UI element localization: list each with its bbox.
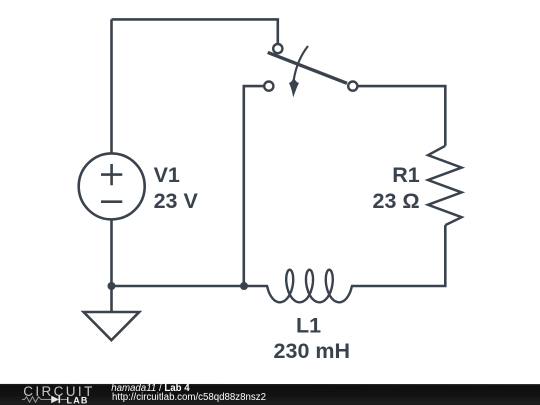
svg-text:R1: R1 — [392, 163, 420, 187]
footer url — [112, 393, 266, 403]
wire resistor bottom — [352, 225, 446, 286]
V1 plus sign — [101, 164, 122, 185]
ground stem — [110, 286, 113, 312]
svg-text:V1: V1 — [154, 163, 180, 187]
svg-text:L1: L1 — [296, 313, 321, 337]
switch SW1 right throw terminal — [348, 82, 357, 91]
V1 minus sign — [101, 200, 122, 203]
svg-text:23 V: 23 V — [154, 189, 199, 213]
logo diode — [51, 396, 59, 403]
switch SW1 arm — [268, 52, 347, 83]
CircuitLab logo CIRCUIT text — [23, 387, 95, 397]
ground triangle — [84, 312, 140, 340]
inductor L1 coil — [267, 270, 352, 303]
switch SW1 pivot terminal — [273, 44, 282, 53]
svg-text:23 Ω: 23 Ω — [373, 189, 420, 213]
voltage source V1 circle — [79, 153, 145, 219]
wire left throw stub — [244, 86, 264, 286]
switch SW1 left throw terminal — [264, 82, 273, 91]
switch arrow head — [289, 77, 299, 98]
wire top-left vertical — [110, 19, 113, 153]
resistor R1 — [428, 146, 462, 225]
wire right throw to resistor — [358, 86, 446, 146]
footer bar — [0, 384, 540, 405]
svg-text:230 mH: 230 mH — [274, 339, 351, 363]
switch arrow arc — [294, 46, 308, 80]
wire top horizontal — [112, 19, 278, 44]
logo resistor zigzag — [22, 397, 51, 402]
svg-text:LAB: LAB — [66, 395, 88, 405]
logo squiggle diode and LAB — [22, 395, 102, 405]
wire V1 bottom — [110, 219, 113, 286]
junction dot A — [108, 282, 116, 290]
footer title — [111, 384, 189, 394]
junction dot B — [240, 282, 248, 290]
wire bottom horizontal — [112, 285, 268, 288]
